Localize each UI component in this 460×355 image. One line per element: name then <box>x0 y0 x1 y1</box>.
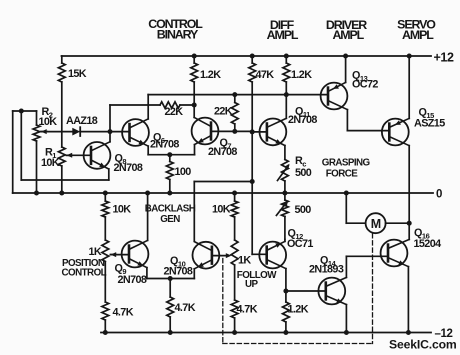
resistor 10K follow <box>234 193 236 201</box>
wire base column <box>251 132 253 254</box>
wire Q11 collector riser <box>285 95 287 119</box>
svg-text:AMPL: AMPL <box>267 28 299 42</box>
transistor Q16 15204 <box>381 240 408 267</box>
wire Q10 collector riser <box>193 182 195 241</box>
diode AAZ18 <box>72 128 80 136</box>
wire Q9 base <box>111 254 129 256</box>
resistor 1.2K binary <box>193 56 195 63</box>
potentiometer 1K follow-up <box>231 240 238 265</box>
svg-text:BINARY: BINARY <box>157 28 199 42</box>
node 22K bottom <box>232 129 237 134</box>
svg-text:15204: 15204 <box>414 238 442 250</box>
svg-text:OC72: OC72 <box>352 79 378 91</box>
wire Q13 emitter riser <box>345 56 347 82</box>
svg-text:10K: 10K <box>113 204 132 216</box>
svg-text:SeekIC.com: SeekIC.com <box>389 338 457 352</box>
svg-text:2N708: 2N708 <box>288 114 317 126</box>
potentiometer R1 10K <box>58 147 65 166</box>
node motor / collectors <box>407 221 412 226</box>
node Q12 collector / Q14 base <box>283 289 288 294</box>
node 1.2K lower on -12 rail <box>283 330 288 335</box>
wire follow-up link <box>194 181 252 183</box>
potentiometer R2 10K <box>36 111 38 125</box>
svg-text:AMPL: AMPL <box>402 28 434 42</box>
transistor Q8 2N708 <box>84 142 111 169</box>
node motor tap on 0 rail <box>344 191 349 196</box>
wire stub top-left <box>13 110 37 112</box>
node 4.7K mid top <box>168 276 173 281</box>
R1 wiper arrow <box>67 154 73 156</box>
dashed link motor <box>372 234 374 344</box>
node right 22K top <box>232 92 237 97</box>
node 4.7K mid on -12 rail <box>168 330 173 335</box>
resistor 22K coupling <box>160 102 180 108</box>
resistor 10K position <box>104 193 106 201</box>
wire Q11 emitter down <box>284 146 286 160</box>
wire diode to node <box>80 131 110 133</box>
wire Q14 collector to Q16 base <box>346 255 387 257</box>
svg-text:15K: 15K <box>68 68 87 80</box>
svg-text:47K: 47K <box>256 69 275 81</box>
wire Q16 collector riser <box>408 223 410 239</box>
svg-text:GEN: GEN <box>160 214 180 225</box>
wire binary emitters <box>148 154 194 156</box>
wire 22K to Q7 collector node <box>180 104 194 106</box>
svg-text:1.2K: 1.2K <box>200 69 221 81</box>
wire Q12 collector down <box>285 269 287 291</box>
node Q16 emitter on -12 rail <box>406 330 411 335</box>
wire to motor <box>346 222 365 224</box>
svg-text:2N708: 2N708 <box>118 274 147 286</box>
resistor 15K <box>61 56 63 63</box>
wire Q11 base <box>252 131 267 133</box>
resistor 4.7K mid <box>169 279 171 298</box>
svg-text:100: 100 <box>175 166 192 178</box>
wire left edge down to 0 rail <box>12 111 14 193</box>
wire Q7 collector riser <box>193 105 195 117</box>
-12 supply rail <box>101 332 431 334</box>
svg-text:4.7K: 4.7K <box>113 307 134 319</box>
resistor 4.7K position <box>102 302 109 320</box>
svg-text:M: M <box>371 217 381 231</box>
node left stub <box>19 109 24 114</box>
wire Q14 collector riser <box>345 256 347 277</box>
svg-text:ASZ15: ASZ15 <box>414 117 445 129</box>
wire Q8 collector riser <box>109 105 111 142</box>
wire R2 wiper to diode <box>41 131 72 133</box>
svg-text:1.2K: 1.2K <box>288 303 309 315</box>
Rc arrow <box>278 166 289 181</box>
wire Q7 emitter down <box>194 145 196 155</box>
wire lower emitters <box>147 278 194 280</box>
svg-text:+12: +12 <box>434 51 454 65</box>
resistor 4.7K follow <box>231 300 238 318</box>
wire Q12 base link <box>252 253 266 255</box>
1K position wiper arrow <box>111 254 117 256</box>
node Q15 emitter on +12 rail <box>407 54 412 59</box>
motor M <box>366 213 386 233</box>
node Q7 collector <box>192 103 197 108</box>
R2 wiper arrow <box>41 131 47 133</box>
svg-text:FORCE: FORCE <box>326 169 359 180</box>
wire Q14 emitter down <box>345 305 347 333</box>
wire Q7 base <box>211 130 252 132</box>
wire Q13 collector to Q15 base <box>347 130 389 132</box>
transistor Q12 OC71 <box>259 242 286 269</box>
node R1 bottom on 0 rail <box>59 191 64 196</box>
node R2 bottom on 0 rail <box>34 191 39 196</box>
resistor 47K <box>251 56 253 63</box>
svg-text:10K: 10K <box>39 116 58 128</box>
wire Q6 base <box>110 131 130 133</box>
svg-text:2N708: 2N708 <box>208 146 237 158</box>
svg-text:1K: 1K <box>89 246 102 258</box>
svg-text:2N708: 2N708 <box>150 138 179 150</box>
node 47K on +12 rail <box>250 54 255 59</box>
transistor Q9 2N708 <box>122 241 149 268</box>
resistor 100 <box>169 155 171 162</box>
svg-text:1.2K: 1.2K <box>291 69 312 81</box>
wire Q13 collector down <box>346 110 348 131</box>
node Q13 emitter on +12 rail <box>343 54 348 59</box>
wire Q9 emitter down <box>146 268 148 279</box>
transistor Q15 ASZ15 <box>382 119 409 146</box>
wire coupling to 22K <box>110 104 160 106</box>
resistor 22K right <box>234 95 236 103</box>
svg-text:BACKLASH: BACKLASH <box>145 203 196 214</box>
node 100 top <box>167 152 172 157</box>
wire Q10 emitter down <box>193 269 195 279</box>
svg-text:1K: 1K <box>238 255 251 267</box>
wire Q10 base to follow pot <box>212 255 228 257</box>
wire 500 to Q12 emitter <box>284 240 286 242</box>
wire Q6 collector to diff amp <box>148 94 327 96</box>
wire Q15 emitter riser <box>408 56 410 118</box>
svg-text:2N708: 2N708 <box>114 162 143 174</box>
potentiometer 1K position <box>102 240 109 262</box>
svg-text:GRASPING: GRASPING <box>322 157 371 168</box>
wire motor to collectors <box>386 222 410 224</box>
svg-text:500: 500 <box>295 167 312 179</box>
0V rail <box>13 192 433 194</box>
svg-text:4.7K: 4.7K <box>237 303 258 315</box>
node 100 bottom on 0 rail <box>167 191 172 196</box>
svg-text:4.7K: 4.7K <box>175 302 196 314</box>
wire to Q8 emitter <box>21 179 109 181</box>
+12 supply rail <box>62 55 432 57</box>
svg-text:OC71: OC71 <box>287 238 313 250</box>
svg-text:2N1893: 2N1893 <box>309 263 344 275</box>
wire Q8 emitter down <box>108 169 110 180</box>
resistor 1.2K lower <box>285 291 287 302</box>
svg-text:22K: 22K <box>165 106 184 118</box>
transistor Q14 2N1893 <box>318 278 345 305</box>
node Rc bottom on 0 rail <box>282 191 287 196</box>
svg-text:500: 500 <box>295 204 312 216</box>
wire Q15 collector down <box>408 146 410 224</box>
wire motor tap down <box>345 193 347 223</box>
wire Q6 emitter down <box>147 146 149 155</box>
transistor Q7 2N708 <box>192 118 219 145</box>
node 47K bottom / bases <box>250 129 255 134</box>
wire R1 wiper to Q8 base <box>67 154 92 156</box>
svg-text:10K: 10K <box>41 157 60 169</box>
rheostat Rc 500 <box>282 160 289 182</box>
wire Q6 collector riser <box>147 95 149 119</box>
wire Q16 emitter down <box>407 267 409 333</box>
svg-text:0: 0 <box>436 189 442 201</box>
transistor Q13 OC72 <box>321 83 348 110</box>
svg-text:AMPL: AMPL <box>332 28 364 42</box>
svg-text:AAZ18: AAZ18 <box>66 115 98 127</box>
node follow-up junction <box>250 179 255 184</box>
node 4.7K position on -12 rail <box>103 330 108 335</box>
node Q11 collector <box>284 92 289 97</box>
dashed link bottom <box>223 343 373 345</box>
svg-text:2N708: 2N708 <box>164 266 193 278</box>
node diff 1.2K on +12 rail <box>284 54 289 59</box>
node binary 1.2K on +12 rail <box>192 54 197 59</box>
svg-text:22K: 22K <box>214 106 233 118</box>
rheostat 500 <box>284 193 286 200</box>
node Q8 collector / Q6 base <box>108 129 113 134</box>
transistor Q6 2N708 <box>122 119 149 146</box>
transistor Q11 2N708 <box>260 118 287 145</box>
resistor 1.2K diff <box>285 56 287 63</box>
node 4.7K follow on -12 rail <box>232 330 237 335</box>
svg-text:CONTROL: CONTROL <box>62 268 107 279</box>
dashed link follow-up <box>222 259 224 344</box>
svg-text:UP: UP <box>245 279 259 290</box>
node Q9 collector on 0 rail <box>145 191 150 196</box>
node 10K follow on 0 rail <box>232 191 237 196</box>
wire Q14 base <box>286 290 326 292</box>
wire from node down <box>20 111 22 180</box>
wire Q9 collector riser <box>147 193 149 240</box>
svg-text:10K: 10K <box>212 204 231 216</box>
transistor Q10 2N708 <box>193 242 220 269</box>
500 arrow <box>276 202 287 216</box>
node 10K position on 0 rail <box>103 191 108 196</box>
node Q14 emitter on -12 rail <box>344 330 349 335</box>
